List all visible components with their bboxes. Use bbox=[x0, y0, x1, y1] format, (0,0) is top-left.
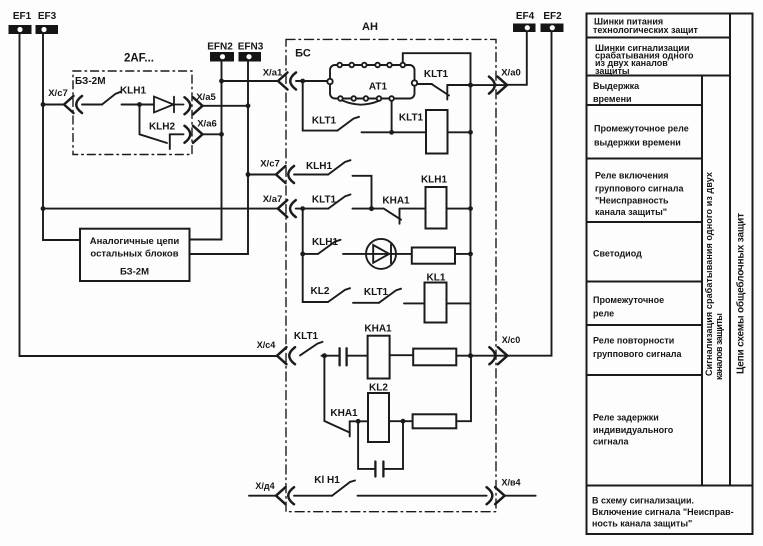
timer element AT1 bbox=[327, 63, 417, 105]
relay coil KL1 bbox=[425, 283, 447, 323]
wire AT1 right lead bbox=[417, 83, 432, 85]
wire to LED bbox=[343, 253, 412, 255]
svg-text:X/д4: X/д4 bbox=[255, 481, 274, 491]
wire KHA1 coil to resistor bbox=[390, 354, 414, 356]
svg-text:X/a6: X/a6 bbox=[197, 119, 217, 130]
svg-text:БЗ-2М: БЗ-2М bbox=[120, 267, 149, 278]
contact KLH1 (B3-2M) bbox=[102, 92, 121, 105]
svg-text:БЗ-2М: БЗ-2М bbox=[75, 76, 106, 87]
wire resistor to bus bbox=[455, 253, 471, 255]
svg-text:защиты: защиты bbox=[595, 66, 630, 76]
terminal EF3 bbox=[36, 25, 59, 34]
wire after X/c7 connector bbox=[82, 104, 102, 106]
wire EF2 down to X/c0 bbox=[507, 32, 552, 356]
node X/a6 EFN2 bbox=[219, 132, 224, 137]
svg-text:KLT1: KLT1 bbox=[294, 331, 319, 342]
svg-text:KHA1: KHA1 bbox=[330, 408, 358, 419]
svg-text:Промежуточное реле: Промежуточное реле bbox=[594, 124, 689, 134]
svg-text:Kl H1: Kl H1 bbox=[314, 475, 340, 486]
node bus/KLH1 bbox=[468, 206, 473, 211]
svg-text:Выдержка: Выдержка bbox=[593, 81, 640, 91]
node EFN2/Xa1 bbox=[219, 79, 224, 84]
legend table bbox=[587, 14, 753, 535]
wire X/a1 row bbox=[222, 80, 279, 82]
svg-text:В схему сигнализации.: В схему сигнализации. bbox=[592, 496, 694, 506]
resistor R (row G) bbox=[413, 414, 457, 428]
wire left branch down bbox=[303, 209, 328, 302]
wire resistor up to X/c0 node bbox=[456, 356, 471, 422]
svg-text:Реле включения: Реле включения bbox=[595, 171, 669, 181]
contact KLT1 (row 1 lower) bbox=[337, 117, 359, 131]
wire KL1 coil to bus bbox=[447, 302, 471, 304]
LED VD1 bbox=[366, 239, 396, 269]
wire to KL1 coil bbox=[404, 302, 425, 304]
connector X/c0 bbox=[489, 347, 507, 364]
label analogous circuits box bbox=[90, 236, 180, 278]
svg-text:реле: реле bbox=[593, 309, 614, 319]
svg-text:выдержки времени: выдержки времени bbox=[594, 138, 681, 148]
node AT1 stub bbox=[391, 101, 393, 132]
wire to KLT1 coil bbox=[362, 131, 427, 133]
node bus/KLT1 bbox=[468, 130, 473, 135]
contact KLT1 (row C) bbox=[328, 195, 350, 209]
svg-text:KLT1: KLT1 bbox=[312, 116, 337, 127]
wire X/c4 branch down bbox=[323, 356, 325, 421]
svg-text:EFN3: EFN3 bbox=[238, 42, 264, 53]
svg-text:сигнала: сигнала bbox=[593, 437, 629, 447]
connector X/d4 bbox=[276, 487, 294, 504]
svg-text:Аналогичные цепи: Аналогичные цепи bbox=[90, 236, 180, 247]
svg-text:KHA1: KHA1 bbox=[382, 196, 410, 207]
svg-text:KLH1: KLH1 bbox=[120, 86, 147, 97]
dashed box 2AF (block B3-2M) bbox=[73, 71, 192, 155]
terminal EF1 bbox=[9, 25, 32, 34]
wire LED row lead bbox=[303, 253, 318, 255]
wire KL2 coil to resistor bbox=[389, 420, 413, 422]
svg-text:группового сигнала: группового сигнала bbox=[593, 349, 682, 359]
svg-text:KLH1: KLH1 bbox=[421, 175, 448, 186]
node KHA1 bbox=[369, 206, 374, 211]
box: analogous circuits B3-2M bbox=[80, 229, 190, 281]
wire KLT1 coil to bus bbox=[448, 131, 471, 133]
svg-text:KLT1: KLT1 bbox=[364, 287, 389, 298]
wire to KHA1 node bbox=[353, 208, 372, 210]
terminal EF2 bbox=[541, 24, 564, 33]
contact KLT1 (break, top) bbox=[432, 84, 471, 99]
svg-text:KLH1: KLH1 bbox=[312, 237, 339, 248]
svg-text:EF2: EF2 bbox=[543, 11, 562, 22]
svg-text:ность канала защиты": ность канала защиты" bbox=[592, 519, 692, 529]
relay coil KHA1 bbox=[368, 336, 390, 379]
wire X/a6 to EFN2 bbox=[203, 133, 222, 135]
svg-text:X/c4: X/c4 bbox=[257, 340, 276, 350]
connector X/c7 (BS edge) bbox=[276, 166, 294, 183]
svg-text:времени: времени bbox=[593, 94, 632, 104]
wire X/a1 to AT1 bbox=[296, 80, 328, 82]
svg-text:KL2: KL2 bbox=[311, 286, 330, 297]
wire between contacts bbox=[353, 302, 379, 304]
contact KLT1 (row E) bbox=[379, 289, 401, 303]
node LED row bbox=[300, 252, 305, 257]
svg-text:Светодиод: Светодиод bbox=[593, 249, 642, 259]
contact KLH1 (row H) bbox=[332, 481, 355, 496]
wire X/a7 to contact bbox=[296, 208, 328, 210]
relay coil KLT1 bbox=[426, 110, 448, 154]
svg-text:EF1: EF1 bbox=[13, 11, 32, 22]
wire KLH1 branch to KHA1 node bbox=[353, 176, 372, 209]
svg-text:KLH1: KLH1 bbox=[306, 161, 333, 172]
svg-text:Включение сигнала "Неисправ-: Включение сигнала "Неисправ- bbox=[592, 507, 734, 517]
dashed box AN/BS bbox=[286, 39, 496, 511]
svg-text:каналов защиты: каналов защиты bbox=[714, 313, 724, 380]
wire X/c7 to contact bbox=[294, 174, 328, 176]
svg-text:X/c7: X/c7 bbox=[260, 159, 280, 170]
diode VD (B3-2M) bbox=[154, 97, 184, 113]
svg-text:технологических защит: технологических защит bbox=[593, 25, 699, 35]
node resistor branch bbox=[401, 419, 406, 424]
svg-text:"Неисправность: "Неисправность bbox=[595, 196, 669, 206]
svg-text:X/a7: X/a7 bbox=[263, 194, 283, 205]
wire capacitor to KHA1 coil bbox=[348, 355, 368, 357]
connector X/a6 bbox=[185, 126, 203, 143]
node EF3/Xc7 bbox=[41, 102, 46, 107]
relay coil KL2 bbox=[368, 393, 389, 442]
contact KLH1 (row B) bbox=[328, 160, 350, 174]
wire to diode node bbox=[122, 104, 155, 106]
svg-text:Цепи схемы общеблочных защит: Цепи схемы общеблочных защит bbox=[735, 213, 747, 374]
node X/a5 EFN3 bbox=[246, 103, 251, 108]
node cap branch bbox=[356, 419, 361, 424]
contact KLH1 (row D) bbox=[318, 240, 341, 254]
wire EFN3 down to box bbox=[190, 62, 249, 255]
wire EF1 down to X/c4 row bbox=[20, 34, 278, 356]
svg-text:X/a0: X/a0 bbox=[501, 68, 521, 79]
capacitor C (row F) bbox=[340, 348, 347, 365]
connector X/a5 bbox=[185, 97, 203, 114]
svg-text:2AF...: 2AF... bbox=[124, 53, 154, 65]
svg-text:X/в4: X/в4 bbox=[501, 478, 520, 488]
svg-text:X/a5: X/a5 bbox=[196, 92, 216, 103]
svg-text:KLT1: KLT1 bbox=[399, 113, 424, 124]
contact KHA1 (break, row G) bbox=[324, 421, 368, 436]
contact KL2 (row E) bbox=[328, 288, 350, 302]
node EFN3/Xc7 bbox=[246, 172, 251, 177]
wire X/d4 to contact bbox=[294, 495, 332, 497]
svg-text:EF4: EF4 bbox=[516, 11, 535, 22]
wire X/a5 to EFN3 bbox=[203, 105, 249, 107]
wire X/c7 row bbox=[248, 174, 276, 176]
wire X/a0 row bbox=[471, 84, 508, 86]
wire after X/v4 bbox=[505, 495, 536, 497]
svg-text:KLH2: KLH2 bbox=[149, 122, 176, 133]
connector X/v4 bbox=[487, 487, 505, 504]
svg-text:Сигнализация срабатывания одно: Сигнализация срабатывания одного из двух bbox=[704, 172, 714, 376]
connector X/a1 bbox=[278, 73, 296, 90]
connector X/c7 (B3-2M edge) bbox=[64, 96, 82, 113]
svg-text:X/c0: X/c0 bbox=[502, 335, 521, 345]
connector X/a7 bbox=[278, 200, 296, 217]
svg-text:остальных блоков: остальных блоков bbox=[90, 249, 178, 260]
wire X/a0 to EF4 bbox=[507, 32, 527, 85]
wire to X/v4 bbox=[358, 495, 487, 497]
wire EF3 down bbox=[43, 34, 80, 240]
contact KHA1 (break, row C) bbox=[384, 209, 426, 224]
capacitor C loop (row G) bbox=[358, 421, 403, 476]
svg-text:AT1: AT1 bbox=[369, 82, 388, 93]
resistor R (row F) bbox=[413, 349, 456, 366]
node X/a0 bbox=[468, 83, 473, 88]
wire X/a1 branch down bbox=[303, 81, 338, 131]
svg-text:индивидуального: индивидуального bbox=[593, 425, 674, 435]
wire X/d4 row bbox=[249, 495, 276, 497]
terminal EF4 bbox=[513, 24, 536, 33]
wire AT1 top bypass bbox=[403, 53, 471, 85]
svg-text:АН: АН bbox=[362, 21, 378, 33]
svg-text:KL1: KL1 bbox=[427, 273, 446, 284]
wire resistor to X/c0 bbox=[456, 355, 507, 357]
svg-text:X/a1: X/a1 bbox=[263, 68, 283, 79]
relay coil KLH1 bbox=[426, 187, 447, 229]
node bus/LED row bbox=[468, 252, 473, 257]
node bus/Xc0 bbox=[468, 353, 473, 358]
svg-text:канала защиты": канала защиты" bbox=[595, 207, 667, 217]
node X/c4 branch bbox=[322, 353, 327, 358]
wire KHA1 lead bbox=[372, 208, 384, 210]
svg-text:Реле повторности: Реле повторности bbox=[593, 336, 674, 346]
node X/a7 branch bbox=[300, 206, 305, 211]
svg-text:БС: БС bbox=[295, 48, 311, 60]
wire KLH2 branch bbox=[139, 105, 141, 135]
svg-text:EFN2: EFN2 bbox=[207, 42, 233, 53]
node KLH1/KLH2 branch bbox=[137, 102, 142, 107]
svg-text:KLT1: KLT1 bbox=[424, 69, 449, 80]
svg-text:KLT1: KLT1 bbox=[312, 195, 337, 206]
node EF3/Xa7 bbox=[41, 206, 46, 211]
terminal EFN3 bbox=[239, 52, 262, 62]
terminal EFN2 bbox=[210, 52, 234, 62]
wire EFN2 down to box bbox=[190, 62, 222, 240]
svg-text:X/c7: X/c7 bbox=[48, 88, 68, 99]
contact KLT1 (row F) bbox=[300, 342, 323, 356]
wire to capacitor bbox=[322, 355, 339, 357]
resistor R (LED row) bbox=[412, 248, 455, 264]
svg-text:Промежуточное: Промежуточное bbox=[593, 295, 664, 305]
wire KLH1 coil to bus bbox=[447, 208, 471, 210]
svg-text:KHA1: KHA1 bbox=[364, 324, 392, 335]
node X/a1 branch bbox=[300, 79, 305, 84]
svg-text:KL2: KL2 bbox=[369, 383, 388, 394]
svg-text:Реле задержки: Реле задержки bbox=[593, 413, 659, 423]
bus vertical right bbox=[470, 85, 472, 356]
wire X/a7 row bbox=[43, 208, 278, 210]
connector X/c4 bbox=[277, 347, 295, 364]
connector X/a0 bbox=[489, 77, 507, 94]
svg-text:группового сигнала: группового сигнала bbox=[595, 184, 684, 194]
wire X/c7 left row bbox=[43, 104, 64, 106]
contact KLH2 (break) bbox=[140, 134, 184, 149]
svg-text:EF3: EF3 bbox=[38, 11, 57, 22]
